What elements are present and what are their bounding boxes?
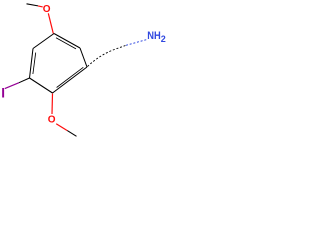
wire: methyl bond of bottom methoxy (black half) bbox=[67, 131, 76, 137]
double bond inner line of edge LL-UL bbox=[33, 53, 36, 74]
benzene ring edge UR-LR bbox=[80, 48, 87, 67]
double bond inner line of edge T-UR bbox=[56, 38, 76, 49]
wire: methyl bond of top methoxy (red tip near O) bbox=[38, 6, 43, 7]
wire: bond ring B down to bottom O (red) bbox=[51, 94, 54, 115]
svg-text:O: O bbox=[43, 4, 51, 15]
benzene ring edge B-LL bbox=[30, 78, 53, 93]
wire: bond from top O down to ring carbon T (red) bbox=[48, 13, 53, 33]
svg-text:NH: NH bbox=[147, 30, 161, 42]
benzene ring edge LL-UL bbox=[30, 49, 34, 79]
wire: bond I to ring (black half) bbox=[19, 78, 30, 83]
svg-text:O: O bbox=[48, 115, 56, 126]
benzene ring edge T-UR bbox=[54, 34, 80, 49]
benzene ring edge LR-B bbox=[53, 67, 88, 93]
benzene ring edge UL-T bbox=[33, 34, 54, 49]
svg-text:I: I bbox=[1, 85, 5, 100]
double bond inner line of edge LR-B bbox=[57, 67, 84, 87]
svg-text:2: 2 bbox=[161, 34, 166, 44]
wire: bond I to ring (purple half) bbox=[5, 83, 19, 89]
wire: dashed side chain from ring LR (black dashes) bbox=[88, 45, 127, 66]
wire: methyl bond of bottom methoxy (red half) bbox=[56, 124, 67, 131]
wire: methyl bond of top methoxy (black half) bbox=[27, 4, 39, 6]
wire: dashed bond to amine N (blue dashes) bbox=[126, 40, 147, 46]
